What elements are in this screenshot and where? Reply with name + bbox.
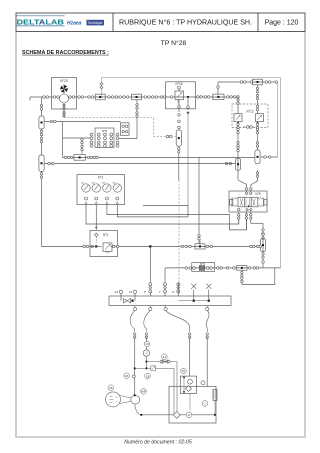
svg-text:T: T: [159, 290, 161, 294]
svg-text:TP N°28: TP N°28: [161, 39, 187, 47]
svg-text:Page : 120: Page : 120: [265, 19, 299, 26]
svg-text:X2: X2: [114, 290, 118, 294]
svg-text:15: 15: [125, 374, 129, 378]
svg-text:11: 11: [163, 355, 166, 359]
svg-text:16: 16: [109, 386, 113, 390]
svg-text:10: 10: [182, 369, 186, 373]
svg-text:13: 13: [145, 342, 149, 346]
svg-text:SCHEMA DE RACCORDEMENTS :: SCHEMA DE RACCORDEMENTS :: [22, 50, 109, 56]
svg-text:RUBRIQUE N°6 : TP HYDRAULIQUE: RUBRIQUE N°6 : TP HYDRAULIQUE SH.: [119, 18, 252, 26]
svg-text:N°2: N°2: [103, 233, 109, 237]
svg-text:Numéro de document : 02-05: Numéro de document : 02-05: [124, 440, 192, 446]
svg-text:P: P: [172, 290, 174, 294]
svg-text:DELTALAB: DELTALAB: [17, 17, 65, 26]
svg-text:N°9: N°9: [255, 192, 261, 196]
svg-text:N°16: N°16: [175, 82, 182, 86]
svg-text:Hzaea: Hzaea: [67, 21, 82, 27]
svg-text:N°8: N°8: [102, 129, 107, 133]
svg-text:Technique: Technique: [88, 21, 103, 25]
svg-text:P: P: [144, 290, 146, 294]
svg-text:MP: MP: [141, 390, 146, 394]
svg-text:18: 18: [146, 374, 150, 378]
svg-text:N°12: N°12: [246, 110, 253, 114]
svg-text:N°1: N°1: [98, 175, 104, 179]
svg-text:17: 17: [187, 413, 191, 417]
svg-text:N°23: N°23: [60, 79, 68, 83]
svg-text:X1: X1: [129, 290, 133, 294]
